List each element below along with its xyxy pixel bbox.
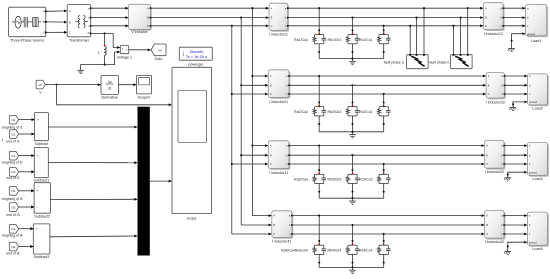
svg-text:I21: I21: [11, 154, 15, 158]
svg-text:A: A: [69, 9, 71, 13]
svg-text:Voltage 1: Voltage 1: [117, 55, 132, 59]
svg-text:begining of I3: begining of I3: [2, 197, 22, 201]
svg-text:+: +: [37, 118, 39, 122]
svg-text:Subtract: Subtract: [35, 142, 49, 146]
svg-text:I11: I11: [11, 118, 15, 122]
svg-text:B: B: [69, 20, 71, 24]
svg-text:ground: ground: [527, 33, 535, 36]
svg-text:Ra3/Ca3: Ra3/Ca3: [294, 178, 308, 182]
svg-text:C: C: [486, 163, 488, 166]
svg-text:C: C: [270, 93, 272, 96]
svg-text:Rc1/Cc1: Rc1/Cc1: [359, 38, 372, 42]
svg-text:powergui: powergui: [188, 62, 203, 66]
svg-text:ground: ground: [529, 171, 537, 174]
svg-text:V inductor: V inductor: [131, 30, 148, 34]
svg-text:I22: I22: [11, 170, 15, 174]
svg-text:Ra4/Ca4Branch9: Ra4/Ca4Branch9: [281, 249, 308, 253]
svg-text:C: C: [69, 31, 71, 35]
svg-text:C: C: [488, 93, 490, 96]
svg-text:B: B: [43, 20, 45, 24]
svg-text:I inductor21: I inductor21: [269, 100, 288, 104]
svg-text:L: L: [98, 51, 100, 55]
svg-text:Δt: Δt: [108, 86, 111, 90]
svg-text:I inductor22: I inductor22: [486, 101, 505, 105]
svg-text:ground: ground: [529, 101, 537, 104]
svg-text:begining of I4: begining of I4: [2, 233, 22, 237]
svg-text:scope: scope: [187, 217, 197, 221]
svg-text:Load3: Load3: [532, 177, 542, 181]
svg-text:1: 1: [2, 138, 4, 142]
svg-text:end of I4: end of I4: [6, 251, 19, 255]
svg-text:+: +: [36, 227, 38, 231]
svg-text:Ra1/Ca1: Ra1/Ca1: [294, 38, 308, 42]
svg-text:C: C: [486, 233, 488, 236]
svg-text:Load4: Load4: [532, 247, 542, 251]
svg-text:I31: I31: [11, 189, 15, 193]
svg-text:A: A: [43, 10, 45, 14]
svg-text:Subtract3: Subtract3: [34, 255, 50, 259]
svg-text:Derivative: Derivative: [101, 96, 117, 100]
svg-text:Goto: Goto: [155, 57, 163, 61]
svg-text:C: C: [273, 233, 275, 236]
svg-text:Ra2/Ca2: Ra2/Ca2: [294, 110, 308, 114]
svg-text:C: C: [271, 25, 273, 28]
svg-text:C: C: [43, 31, 45, 35]
svg-text:Rb3/Cb3: Rb3/Cb3: [327, 178, 341, 182]
svg-text:Load2: Load2: [532, 107, 542, 111]
svg-text:end of I2: end of I2: [6, 176, 19, 180]
svg-text:begining of I2: begining of I2: [2, 160, 22, 164]
svg-text:I inductor31: I inductor31: [269, 171, 288, 175]
svg-text:Rb2/Cb2: Rb2/Cb2: [327, 110, 341, 114]
svg-text:I inductor41: I inductor41: [272, 240, 291, 244]
svg-text:Three-Phase Source: Three-Phase Source: [10, 38, 44, 42]
svg-text:I12: I12: [11, 132, 15, 136]
svg-text:Subtract2: Subtract2: [34, 214, 50, 218]
svg-text:Rc4/Cc4: Rc4/Cc4: [359, 249, 372, 253]
svg-text:Rc2/Cc2: Rc2/Cc2: [359, 110, 372, 114]
svg-text:I42: I42: [11, 245, 15, 249]
svg-text:begining of I1: begining of I1: [2, 125, 22, 129]
svg-text:V0: V0: [38, 83, 42, 87]
svg-text:Δu: Δu: [108, 80, 112, 84]
svg-text:C: C: [485, 25, 487, 28]
svg-text:Load1: Load1: [531, 39, 541, 43]
svg-text:C: C: [270, 163, 272, 166]
svg-text:+: +: [37, 189, 39, 193]
svg-text:ScopeV: ScopeV: [138, 96, 151, 100]
svg-text:Rb4/Cb4: Rb4/Cb4: [327, 249, 341, 253]
svg-text:C: C: [147, 25, 149, 28]
svg-text:Transformer: Transformer: [69, 38, 90, 42]
svg-text:Rc3/Cc3: Rc3/Cc3: [359, 178, 372, 182]
svg-text:Ts = 1e-05 s.: Ts = 1e-05 s.: [186, 54, 208, 59]
svg-text:Subtract1: Subtract1: [33, 179, 49, 183]
svg-text:ground: ground: [529, 241, 537, 244]
svg-text:I32: I32: [11, 205, 15, 209]
svg-text:fault phase a: fault phase a: [384, 61, 404, 65]
svg-text:I41: I41: [11, 227, 15, 231]
svg-text:I inductor12: I inductor12: [484, 32, 503, 36]
svg-text:end of I1: end of I1: [6, 139, 19, 143]
svg-text:V0: V0: [158, 48, 162, 52]
svg-text:fault phase b: fault phase b: [429, 61, 449, 65]
svg-text:end of I3: end of I3: [6, 213, 19, 217]
svg-text:I inductor11: I inductor11: [269, 32, 288, 36]
svg-text:+: +: [37, 154, 39, 158]
svg-text:I inductor32: I inductor32: [485, 170, 504, 174]
svg-text:Rb1/Cb1: Rb1/Cb1: [327, 38, 341, 42]
svg-text:I inductor42: I inductor42: [485, 240, 504, 244]
